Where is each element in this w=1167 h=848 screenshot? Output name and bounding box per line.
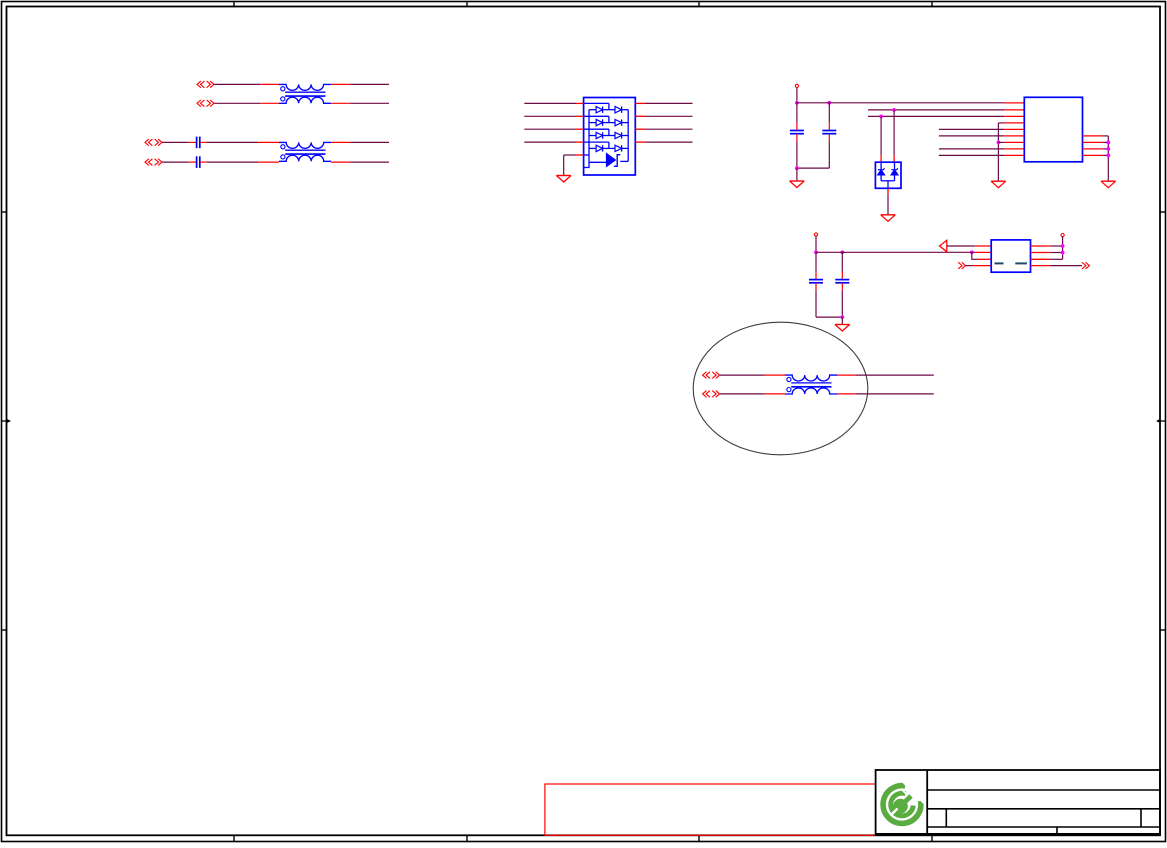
pin bbox=[1031, 245, 1051, 247]
pin bbox=[975, 245, 991, 247]
wire bbox=[815, 283, 817, 291]
ground bbox=[835, 325, 850, 332]
pin bbox=[893, 155, 895, 162]
choke L1 bbox=[279, 84, 331, 103]
port P5 bbox=[1082, 262, 1089, 269]
wire bbox=[947, 245, 975, 247]
wire bbox=[841, 272, 843, 280]
wire bbox=[815, 272, 817, 280]
wire bbox=[765, 393, 785, 395]
pin bbox=[1004, 154, 1024, 156]
wire bbox=[635, 141, 645, 143]
wire bbox=[816, 251, 975, 253]
power pin VP1 bbox=[795, 84, 798, 103]
pin bbox=[1031, 258, 1051, 260]
wire bbox=[189, 141, 197, 143]
wire bbox=[796, 142, 798, 169]
ground bbox=[556, 176, 571, 183]
wire bbox=[214, 83, 260, 85]
wire bbox=[635, 102, 645, 104]
pin bbox=[1004, 128, 1024, 130]
junction bbox=[795, 166, 799, 170]
wire bbox=[841, 283, 843, 291]
tvs diode D5 bottom bus bbox=[881, 181, 894, 189]
wire bbox=[200, 141, 207, 143]
junction bbox=[1061, 244, 1065, 248]
wire bbox=[189, 161, 197, 163]
wire bbox=[815, 291, 817, 318]
ic U3 box bbox=[991, 240, 1030, 272]
port PIN1 arrow bbox=[940, 240, 947, 252]
wire bbox=[868, 109, 1004, 111]
wire bbox=[856, 374, 934, 376]
ground bbox=[790, 181, 805, 188]
pin bbox=[576, 128, 584, 130]
port P2b bbox=[145, 159, 162, 166]
wire bbox=[564, 154, 576, 156]
capacitor C4 bbox=[822, 131, 836, 134]
junction bbox=[1106, 147, 1110, 151]
junction bbox=[997, 141, 1001, 145]
wire bbox=[162, 161, 189, 163]
border center arrow left bbox=[2, 419, 12, 423]
border center arrow right bbox=[1156, 419, 1166, 423]
wire bbox=[645, 102, 693, 104]
wire bbox=[214, 102, 260, 104]
wire bbox=[524, 102, 575, 104]
pin bbox=[1031, 265, 1051, 267]
pin bbox=[972, 265, 991, 267]
pin bbox=[576, 102, 584, 104]
wire bbox=[635, 128, 645, 130]
pin bbox=[1004, 122, 1024, 124]
junction bbox=[970, 250, 974, 254]
junction bbox=[892, 108, 896, 112]
wire bbox=[796, 123, 798, 131]
wire bbox=[796, 103, 798, 123]
capacitor C1 bbox=[197, 137, 200, 149]
wire bbox=[815, 252, 817, 271]
tvs array U1 internal diodes bbox=[584, 103, 629, 151]
wire bbox=[1062, 246, 1064, 259]
wire bbox=[1102, 135, 1108, 137]
wire bbox=[200, 161, 207, 163]
power pin VP3 bbox=[1061, 234, 1064, 247]
wire bbox=[796, 168, 798, 181]
ic U3 dash 2 bbox=[1015, 262, 1027, 264]
pin bbox=[880, 155, 882, 162]
wire bbox=[258, 161, 279, 163]
capacitor C3 bbox=[790, 131, 804, 134]
wire bbox=[645, 128, 693, 130]
wire bbox=[797, 167, 829, 169]
capacitor C2 bbox=[197, 156, 200, 168]
wire bbox=[1050, 245, 1062, 247]
wire bbox=[207, 141, 258, 143]
wire bbox=[1102, 148, 1108, 150]
pin bbox=[1004, 141, 1024, 143]
wire bbox=[563, 155, 565, 175]
wire bbox=[1102, 141, 1108, 143]
wire bbox=[816, 316, 842, 318]
wire bbox=[350, 161, 389, 163]
wire bbox=[868, 115, 1004, 117]
junction bbox=[814, 250, 818, 254]
wire bbox=[893, 110, 895, 155]
detail ellipse bbox=[693, 322, 868, 455]
wire bbox=[1050, 252, 1062, 254]
wire bbox=[841, 291, 843, 318]
wire bbox=[828, 142, 830, 169]
port P6a bbox=[703, 372, 720, 379]
wire bbox=[350, 141, 389, 143]
pin bbox=[1004, 109, 1024, 111]
junction bbox=[1106, 141, 1110, 145]
wire bbox=[939, 148, 1004, 150]
wire bbox=[1050, 265, 1082, 267]
wire bbox=[880, 116, 882, 155]
port P1a bbox=[197, 81, 214, 88]
ground bbox=[1101, 181, 1116, 188]
junction bbox=[1061, 251, 1065, 255]
wire bbox=[331, 83, 350, 85]
pin bbox=[1004, 135, 1024, 137]
pin bbox=[1004, 115, 1024, 117]
wire bbox=[645, 141, 693, 143]
wire bbox=[828, 123, 830, 131]
pin bbox=[1004, 102, 1024, 104]
wire bbox=[837, 374, 856, 376]
pin bbox=[1083, 135, 1103, 137]
wire bbox=[998, 122, 1004, 124]
ground bbox=[881, 215, 896, 222]
pin bbox=[576, 141, 584, 143]
wire bbox=[841, 252, 843, 271]
port P2a bbox=[145, 139, 162, 146]
wire bbox=[720, 374, 765, 376]
wire bbox=[939, 128, 1004, 130]
wire bbox=[1050, 258, 1062, 260]
wire bbox=[635, 115, 645, 117]
capacitor C5 bbox=[809, 280, 823, 283]
pin bbox=[978, 258, 991, 260]
choke L3 bbox=[785, 375, 837, 394]
junction bbox=[840, 250, 844, 254]
wire bbox=[765, 374, 785, 376]
junction bbox=[1106, 154, 1110, 158]
port P1b bbox=[197, 100, 214, 107]
wire bbox=[331, 102, 350, 104]
wire bbox=[350, 83, 389, 85]
wire bbox=[524, 128, 575, 130]
wire bbox=[331, 161, 350, 163]
wire bbox=[972, 252, 978, 259]
wire bbox=[260, 102, 279, 104]
wire bbox=[645, 115, 693, 117]
pin bbox=[1083, 154, 1103, 156]
pin bbox=[1031, 252, 1051, 254]
wire bbox=[162, 141, 189, 143]
pin bbox=[1083, 141, 1103, 143]
wire bbox=[331, 141, 350, 143]
wire bbox=[524, 115, 575, 117]
wire bbox=[997, 123, 999, 181]
wire bbox=[524, 141, 575, 143]
wire bbox=[837, 393, 856, 395]
tvs array U1 zener and buses bbox=[584, 110, 629, 168]
wire bbox=[796, 134, 798, 142]
junction bbox=[879, 115, 883, 119]
wire bbox=[260, 83, 279, 85]
port P4 bbox=[958, 262, 965, 269]
tvs array U1 box bbox=[584, 98, 636, 176]
choke L2 bbox=[279, 142, 331, 161]
wire bbox=[350, 102, 389, 104]
junction bbox=[795, 101, 799, 105]
wire bbox=[966, 265, 972, 267]
pin bbox=[1004, 148, 1024, 150]
pin bbox=[1083, 148, 1103, 150]
wire bbox=[207, 161, 258, 163]
tvs diode D5 box bbox=[875, 162, 901, 188]
junction bbox=[827, 101, 831, 105]
wire bbox=[1102, 154, 1108, 156]
wire bbox=[939, 154, 1004, 156]
pin bbox=[576, 154, 584, 156]
wire bbox=[1107, 136, 1109, 181]
wire bbox=[258, 141, 279, 143]
wire bbox=[939, 135, 1004, 137]
wire bbox=[828, 134, 830, 142]
ground bbox=[991, 181, 1006, 188]
wire bbox=[828, 103, 830, 123]
revision outline red box bbox=[545, 784, 876, 835]
wire bbox=[887, 194, 889, 214]
ic U2 box bbox=[1024, 97, 1082, 162]
wire bbox=[998, 141, 1004, 143]
wire bbox=[841, 317, 843, 324]
logo bbox=[883, 780, 925, 823]
power pin VP2 bbox=[814, 233, 817, 252]
wire bbox=[720, 393, 765, 395]
junction bbox=[840, 315, 844, 319]
wire bbox=[856, 393, 934, 395]
pin bbox=[576, 115, 584, 117]
pin bbox=[975, 251, 991, 253]
capacitor C6 bbox=[835, 280, 849, 283]
title block bbox=[876, 770, 1160, 835]
pin bbox=[887, 188, 889, 194]
ic U3 dash 1 bbox=[995, 262, 1004, 264]
port P6b bbox=[703, 391, 720, 398]
wire VBUS bbox=[797, 102, 1004, 104]
